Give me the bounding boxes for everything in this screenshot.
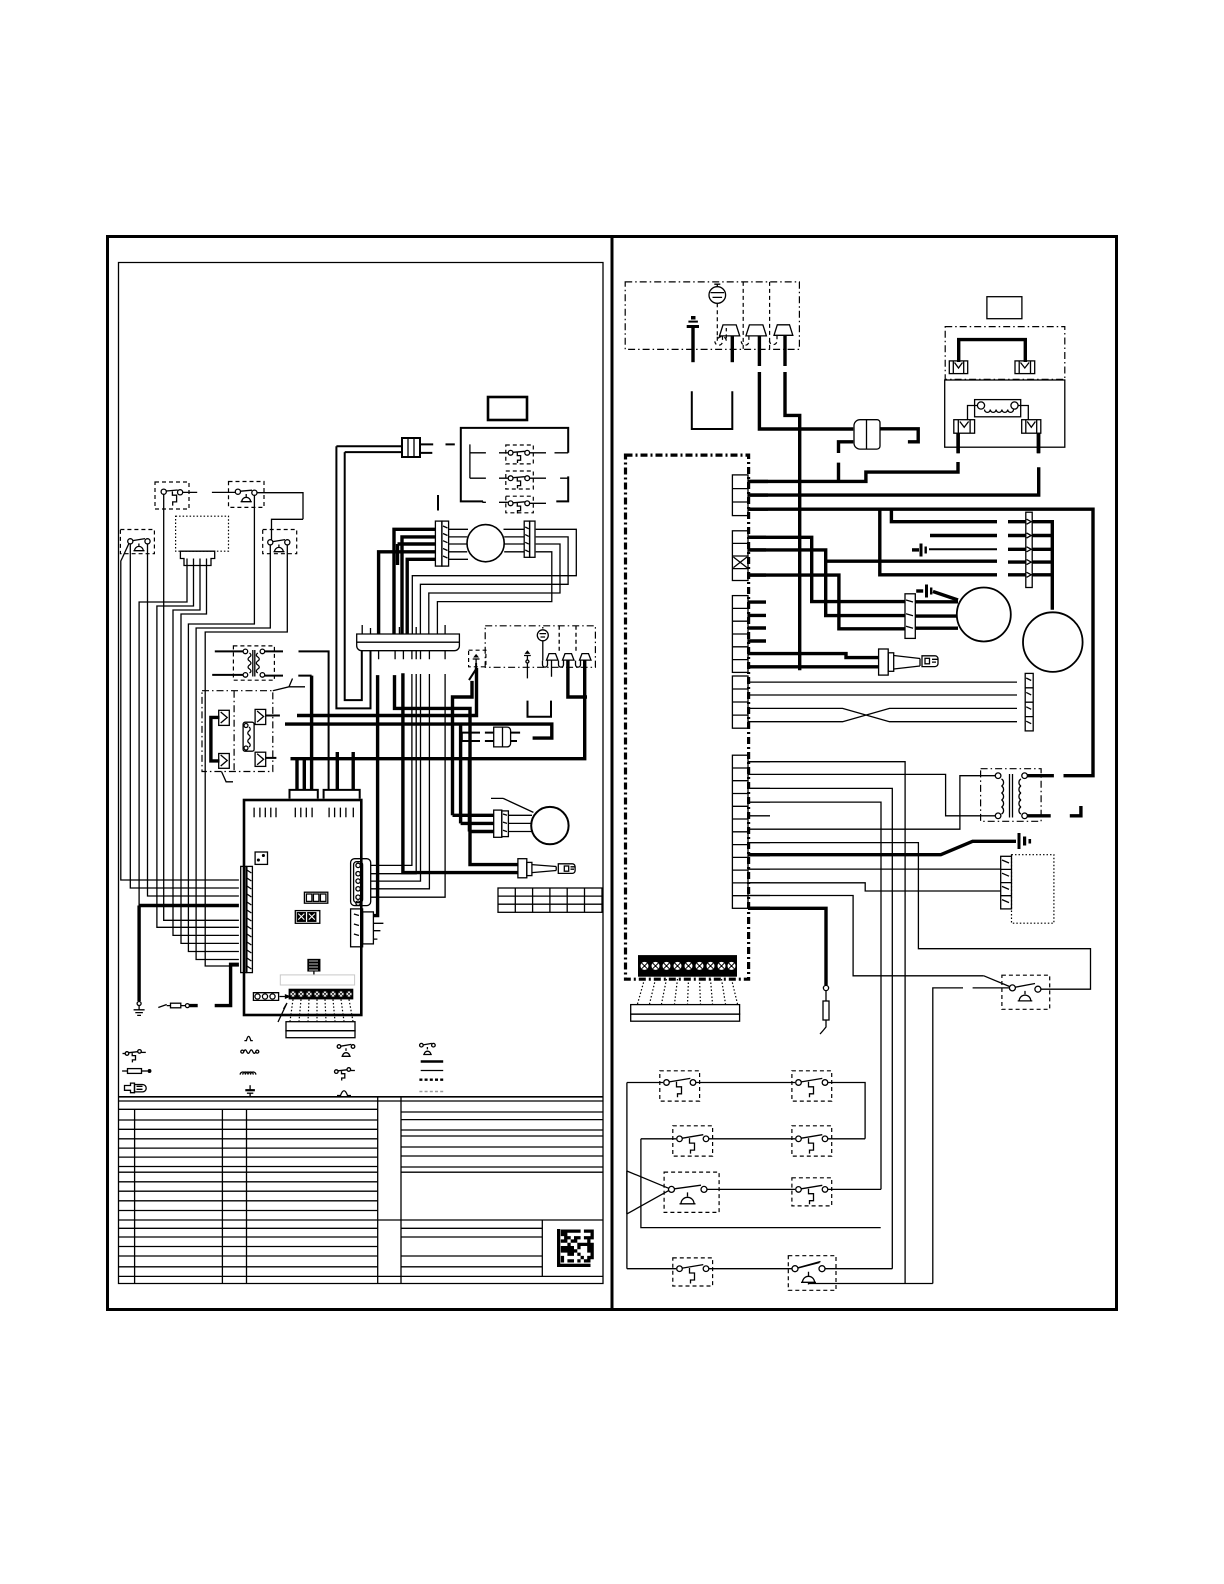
wire fuse right hook — [880, 429, 918, 442]
wire G5 stubs — [748, 762, 770, 896]
legend symbol hump2 — [337, 1091, 351, 1096]
wire thermostat dashed drop — [717, 303, 726, 341]
wire L2 run — [749, 433, 1039, 495]
wire bracket feed top — [437, 495, 439, 511]
legend symbol plug — [125, 1083, 147, 1093]
switch SW4 aux limit dashed box — [155, 482, 189, 509]
chassis ground symbol — [1018, 833, 1032, 849]
legend line heavy — [421, 1060, 444, 1063]
board edge connector strips — [241, 866, 253, 972]
wire cap1 run — [929, 548, 997, 550]
wire fuse drops U-turns — [336, 446, 370, 708]
legend symbol switch — [123, 1050, 146, 1063]
flame sensor FS1 — [543, 654, 559, 677]
row3 fan switch box — [664, 1172, 719, 1212]
wire LS1 right — [257, 493, 303, 520]
connector tab CN1 — [290, 790, 318, 799]
wire BM1 inner left — [449, 529, 468, 559]
row1 switch A — [660, 1071, 700, 1101]
terminal group 1 — [732, 475, 748, 516]
harness dashed drops — [290, 999, 353, 1021]
wire branch to tap4 — [826, 560, 997, 563]
thermostat bulb — [709, 284, 726, 303]
wire BM1 right harness — [412, 529, 576, 634]
board white bar — [280, 975, 354, 985]
chip component — [308, 960, 320, 978]
24V transformer — [995, 773, 1027, 819]
blower motor BM1 — [467, 525, 504, 562]
row2 wire — [641, 1138, 865, 1140]
interlock contact 2 — [1015, 361, 1035, 374]
connector right of BM1 — [524, 521, 535, 557]
wire G5s12 fuse chain — [748, 908, 826, 985]
wire legs to inducer — [453, 681, 473, 815]
wire tap drop — [880, 509, 997, 575]
wire G5s4 long — [748, 802, 881, 1189]
terminal post symbol — [687, 316, 699, 362]
arrow connector col2 — [1025, 673, 1033, 731]
row3 X levers — [627, 1171, 669, 1214]
flame sensor FS2 — [559, 654, 575, 668]
inducer blower connector 3pin — [905, 594, 915, 639]
wire coil left — [462, 733, 494, 741]
row3 wire — [707, 1188, 881, 1190]
board 7segment display — [304, 892, 327, 903]
terminal group 4 — [732, 676, 748, 728]
control board U1 — [244, 800, 361, 1015]
legend symbol breaker — [335, 1068, 355, 1081]
terminal group 2 — [732, 531, 748, 581]
wire G5s3 long — [748, 788, 892, 1268]
wire L3 run — [749, 509, 1093, 776]
wire connector to motor — [508, 815, 533, 831]
wire vert feeds rows — [470, 444, 508, 478]
wire G4 runs — [748, 682, 1017, 722]
wire SW4-LS1 — [183, 491, 236, 493]
wire to inline fuse — [336, 446, 402, 452]
wire divider center rail — [611, 237, 614, 1310]
wire SW3 right — [530, 502, 546, 504]
leader to motor — [491, 798, 533, 812]
wire RO2 feed — [272, 519, 304, 539]
row4 switch A — [673, 1258, 713, 1286]
wire igniter stubs — [748, 654, 879, 667]
switch SW2 dashed box — [506, 471, 534, 489]
anticipator lamp 3 — [769, 325, 792, 345]
wire relay U link — [211, 717, 220, 761]
board jumper box — [255, 852, 267, 864]
wire tap feeds — [930, 522, 1026, 575]
parts table grid — [119, 1097, 604, 1284]
wire xfmr24 primary feeds — [748, 774, 995, 829]
switch SW3 dashed box — [506, 496, 534, 513]
row2 switch A — [673, 1126, 713, 1156]
wire lamp1 stem — [731, 336, 734, 362]
relay R1 dash-dot box — [202, 691, 273, 772]
label box DIAGRAM — [488, 397, 527, 420]
transformer contact L — [954, 406, 978, 434]
row1 wire — [627, 1083, 865, 1139]
row2 switch B — [792, 1126, 832, 1156]
wire fuse drop — [839, 442, 854, 482]
wire comb drops to connectors — [373, 675, 377, 916]
wire tab2 stubs — [337, 752, 353, 790]
legend line dashed light — [419, 1091, 443, 1093]
wire T1 right leads — [265, 651, 329, 790]
row4 pressure switch B — [788, 1256, 836, 1291]
wire leader to block — [278, 1003, 287, 1022]
door interlock dash-dot box — [945, 327, 1065, 380]
EAC dashed box — [1012, 855, 1054, 924]
legend symbol inductor — [240, 1072, 256, 1075]
switch SW1 dashed box — [506, 445, 534, 464]
relay contact C3 — [255, 709, 266, 724]
anticipator lamp 1 — [715, 325, 740, 345]
HUM label box — [987, 297, 1022, 319]
wire BM1 left harness — [379, 529, 436, 634]
thermostat dash-dot box — [625, 282, 799, 350]
wire ground run — [139, 906, 239, 1002]
wire SW1 right — [530, 452, 569, 454]
electrode symbol 2 — [469, 654, 480, 681]
strip terminal block right — [638, 955, 737, 977]
anticipator lamp 2 — [741, 325, 766, 345]
fusible link — [158, 1003, 189, 1008]
transformer coil — [975, 400, 1021, 417]
legend line dashed heavy — [419, 1078, 444, 1080]
wire thick run A — [285, 724, 552, 738]
wire coil right — [511, 733, 520, 741]
board dip switches — [295, 911, 320, 924]
wire interlock jumper — [959, 340, 1026, 362]
plug connector P1 — [180, 551, 214, 565]
rollout RO1 — [123, 539, 151, 558]
fuse F2 inline connector — [402, 438, 420, 457]
rollout RO2 dashed box — [263, 530, 297, 554]
node inner-left-frame — [119, 263, 604, 1284]
legend symbol thermal switch2 — [420, 1043, 436, 1054]
relay contact C2 — [219, 754, 230, 769]
wire G5s8 ground run — [748, 841, 1016, 854]
connector CN4 4pin — [351, 909, 374, 947]
blower motor right — [1023, 612, 1083, 672]
wire lamp2 stem — [759, 336, 853, 429]
wire link to board — [189, 964, 239, 1005]
wire transformer stems — [958, 433, 1038, 453]
legend symbol thermal switch — [337, 1044, 355, 1056]
connector CN3 6pin — [351, 859, 371, 906]
wire spark drop — [542, 641, 544, 661]
pressure switch dashed box — [1002, 975, 1050, 1009]
wire 3pin to inducer — [915, 602, 958, 628]
igniter assembly right — [879, 649, 938, 675]
QR data matrix — [557, 1229, 594, 1267]
legend line light — [421, 1070, 444, 1072]
connector left of BM1 — [435, 521, 448, 566]
wire lamp3 stem — [785, 335, 800, 670]
harness fanout dashed — [638, 979, 738, 1004]
wire tab1 feeds — [297, 759, 304, 790]
fuse 3A — [854, 420, 880, 449]
connector tab CN2 — [324, 790, 360, 799]
switch SW1 — [508, 450, 529, 463]
capacitor symbol 1 — [912, 544, 927, 557]
terminal group 5 — [732, 755, 748, 908]
wire relay leader lines — [222, 679, 306, 782]
row4 bottom run — [809, 1284, 933, 1285]
row1 switch B — [792, 1071, 832, 1101]
row3 switch B — [792, 1178, 832, 1206]
transformer T1 — [243, 649, 265, 677]
switch SW3 — [508, 501, 529, 514]
rollout RO2 — [268, 540, 290, 552]
limit LS1 — [235, 489, 257, 502]
ground symbol G1 — [134, 1002, 145, 1016]
switch SW4 — [161, 489, 183, 506]
row4 wire — [627, 1268, 892, 1270]
hot surface igniter HSI — [518, 859, 576, 878]
legend symbol cap ground — [245, 1085, 255, 1097]
24V transformer dashed box — [981, 769, 1042, 822]
rollout RO1 dashed box — [120, 530, 154, 554]
wire L1 run — [749, 433, 958, 481]
ladder left rail — [626, 1083, 628, 1269]
terminal group 3 — [732, 596, 748, 673]
limit LS1 dashed box — [229, 482, 265, 508]
transformer primary box — [945, 380, 1065, 447]
node blower door bracket — [461, 428, 568, 502]
splice U thermostat — [692, 391, 733, 429]
spark gap symbol — [537, 627, 548, 641]
connector CN5 — [253, 993, 289, 1001]
wire fuse to bracket — [420, 444, 455, 453]
wire G2 runs to blower connector — [748, 537, 905, 629]
transformer contact R — [1018, 406, 1041, 434]
ladder control dash-dot box — [626, 455, 749, 979]
wire tap out bus — [1032, 522, 1052, 610]
terminal block TB1 — [289, 989, 354, 1000]
harness bar right — [631, 1005, 740, 1022]
wire PS left — [933, 988, 1010, 1284]
relay coil — [243, 722, 254, 751]
wire inducer feeds — [453, 815, 494, 831]
splice U below spark — [528, 701, 552, 717]
harness bar — [286, 1022, 355, 1038]
ignition coil IC1 — [494, 727, 511, 747]
transformer T1 dashed box — [233, 646, 274, 680]
wire T1 left leads — [212, 651, 243, 675]
junction box dotted — [176, 516, 229, 551]
EAC arrow connector — [1001, 856, 1012, 909]
capacitor symbol 2 — [916, 585, 958, 601]
speed tap connector — [1026, 512, 1032, 587]
legend symbol hump — [244, 1036, 252, 1040]
board pin ticks — [254, 808, 353, 818]
wire SW3 left — [483, 500, 508, 503]
switch SW2 — [508, 476, 529, 489]
card edge connector comb — [357, 623, 460, 659]
inducer motor IM1 — [531, 807, 568, 844]
relay contact C1 — [219, 710, 230, 725]
relay contact C4 — [255, 752, 266, 766]
legend symbol fuse — [122, 1069, 151, 1074]
flame sensor FS3 — [576, 654, 592, 668]
wire G5s9-11 EAC — [748, 869, 1001, 976]
wire G5s7 PS right — [748, 843, 1091, 990]
wire SW2 right — [530, 477, 569, 479]
interlock contact 1 — [949, 361, 967, 374]
legend symbol resistor — [241, 1050, 259, 1054]
inducer motor right — [957, 588, 1011, 642]
pressure switch PS2 — [984, 976, 1041, 1001]
model table — [498, 888, 602, 912]
sensor dashed boxlet — [469, 650, 486, 667]
wire xfmr24 secondary — [1027, 776, 1081, 816]
wire left harness bundle — [121, 558, 239, 881]
wire BM1 inner right — [504, 529, 525, 552]
border frame — [108, 237, 1117, 1310]
igniter electrode symbol — [524, 650, 531, 678]
igniter group dash-dot box — [485, 626, 595, 668]
wire relay right leads — [266, 715, 280, 717]
wire G5s1 long — [748, 762, 905, 1284]
inducer connector — [494, 810, 509, 837]
